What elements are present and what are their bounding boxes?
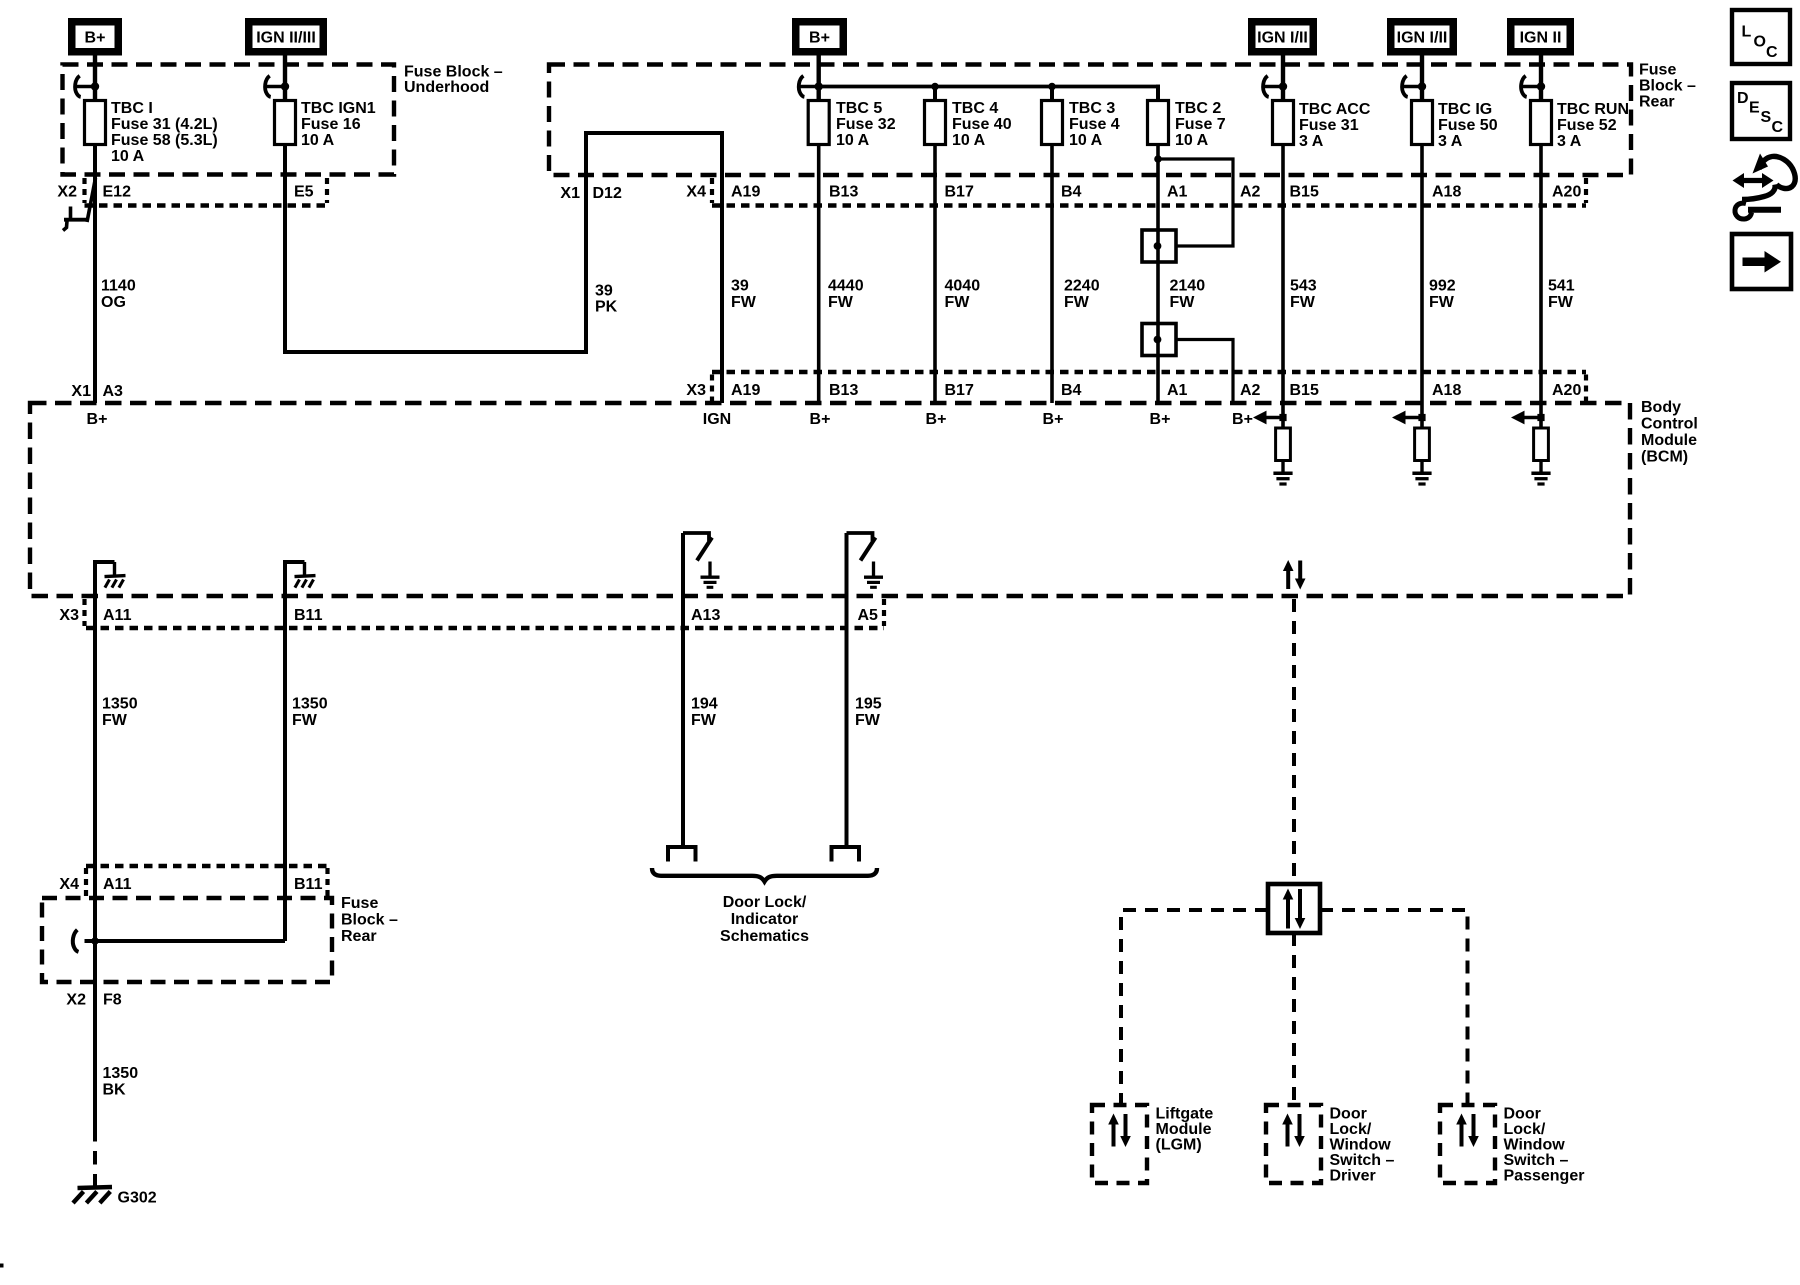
svg-text:A19: A19: [731, 382, 760, 399]
svg-text:TBC 4: TBC 4: [952, 100, 998, 117]
svg-text:FW: FW: [828, 294, 854, 311]
svg-text:Fuse 40: Fuse 40: [952, 116, 1012, 133]
door lock/window switch driver box: [1266, 1105, 1321, 1183]
svg-text:Module: Module: [1156, 1121, 1212, 1138]
svg-text:Fuse 4: Fuse 4: [1069, 116, 1120, 133]
svg-text:Fuse 32: Fuse 32: [836, 116, 896, 133]
svg-text:PK: PK: [595, 299, 618, 316]
svg-text:10 A: 10 A: [301, 132, 335, 149]
svg-text:TBC IGN1: TBC IGN1: [301, 100, 376, 117]
power label B+ underhood: [68, 18, 122, 56]
fuse TBC 3 label: [1069, 100, 1120, 149]
connector A2 label (top): [1240, 184, 1261, 201]
svg-text:Body: Body: [1641, 399, 1681, 416]
svg-text:2140: 2140: [1170, 278, 1206, 295]
svg-text:X1: X1: [71, 383, 91, 400]
BCM input resistor to ground (A18): [1392, 411, 1432, 484]
wire 1350 BK dashed to ground: [93, 1128, 97, 1186]
wire label 1350 BK: [103, 1065, 139, 1099]
connector sep X4/A11 (lower): [84, 868, 88, 896]
svg-text:B+: B+: [1232, 411, 1253, 428]
BCM internal ground (B11): [285, 562, 316, 596]
svg-text:FW: FW: [691, 712, 717, 729]
svg-text:A1: A1: [1167, 184, 1188, 201]
svg-text:A11: A11: [103, 607, 132, 624]
svg-text:1140: 1140: [101, 278, 136, 295]
connector B17 label (top): [945, 184, 974, 201]
BCM pin label B+ (B13): [810, 411, 831, 428]
wire 992 FW: [1420, 145, 1424, 429]
branch wire to splice S1: [1158, 159, 1233, 246]
connector A1 label (top): [1167, 184, 1188, 201]
connector sep X4/A19: [710, 178, 714, 203]
bus clip at B+ rear: [799, 76, 823, 97]
svg-text:B+: B+: [1043, 411, 1064, 428]
svg-text:(LGM): (LGM): [1156, 1137, 1202, 1154]
svg-text:1350: 1350: [102, 696, 138, 713]
connector B13 label (top): [829, 184, 858, 201]
svg-text:IGN: IGN: [703, 411, 731, 428]
svg-text:X1: X1: [560, 185, 580, 202]
connector sep right of A20: [1584, 178, 1588, 203]
wire join inside rear block: [85, 939, 286, 943]
wire 4040 FW: [933, 145, 937, 404]
terminal fork (194): [666, 845, 698, 862]
dashed data wire to passenger switch: [1320, 910, 1468, 1105]
svg-text:Rear: Rear: [341, 928, 377, 945]
BCM serial data up/down arrows: [1283, 560, 1306, 590]
splice box S1: [1142, 230, 1176, 262]
svg-text:Fuse Block –: Fuse Block –: [404, 64, 503, 81]
svg-text:Passenger: Passenger: [1504, 1168, 1585, 1185]
BCM internal ground (A11): [95, 562, 126, 596]
connector sep right of A5: [882, 599, 886, 626]
splice box S2: [1142, 324, 1176, 356]
svg-text:FW: FW: [1064, 294, 1090, 311]
svg-text:A1: A1: [1167, 382, 1188, 399]
svg-text:X2: X2: [66, 992, 86, 1009]
in-line connector jog at E12: [63, 178, 96, 231]
svg-text:1350: 1350: [292, 696, 328, 713]
BCM pin label B+ (A1): [1150, 411, 1171, 428]
svg-text:FW: FW: [102, 712, 128, 729]
fuse TBC IG: [1412, 101, 1433, 145]
dashed data wire to liftgate module: [1121, 910, 1268, 1105]
svg-text:OG: OG: [101, 294, 126, 311]
svg-text:Indicator: Indicator: [731, 911, 799, 928]
svg-text:TBC 2: TBC 2: [1175, 100, 1221, 117]
fuse block rear box (bottom): [42, 898, 332, 982]
svg-text:TBC I: TBC I: [111, 100, 153, 117]
fuse TBC 2 label: [1175, 100, 1226, 149]
svg-text:G302: G302: [118, 1190, 157, 1207]
svg-text:A11: A11: [103, 876, 132, 893]
wire 195 FW (A5): [845, 533, 849, 845]
svg-text:10 A: 10 A: [836, 132, 870, 149]
svg-text:B+: B+: [926, 411, 947, 428]
bus clip at TBC IG: [1402, 76, 1426, 97]
connector X2 | F8 labels: [66, 992, 121, 1009]
connector sep X3/A11: [82, 599, 86, 626]
wire IGN to TBC ACC fuse: [1281, 56, 1285, 101]
connector A5 label: [858, 607, 879, 624]
svg-text:B+: B+: [85, 30, 106, 47]
svg-text:Fuse: Fuse: [1639, 62, 1676, 79]
svg-text:Door: Door: [1330, 1106, 1367, 1123]
svg-text:Control: Control: [1641, 416, 1698, 433]
svg-text:4440: 4440: [828, 278, 864, 295]
svg-text:4040: 4040: [945, 278, 981, 295]
fuse TBC 5 label: [836, 100, 896, 149]
svg-text:Switch –: Switch –: [1330, 1152, 1395, 1169]
connector A13 label: [691, 607, 720, 624]
fuse TBC IG label: [1438, 101, 1498, 150]
BCM top connector band top dotted line: [712, 370, 1586, 374]
fuse TBC I label: [111, 100, 218, 165]
svg-text:A18: A18: [1432, 184, 1461, 201]
svg-text:Fuse 52: Fuse 52: [1557, 117, 1617, 134]
fuse TBC 5: [808, 101, 829, 145]
svg-text:A3: A3: [103, 383, 124, 400]
svg-text:X2: X2: [57, 184, 77, 201]
body control module (BCM) box: [30, 403, 1630, 596]
svg-text:3 A: 3 A: [1299, 133, 1324, 150]
svg-text:10 A: 10 A: [1175, 132, 1209, 149]
svg-text:Lock/: Lock/: [1504, 1121, 1546, 1138]
svg-text:IGN II: IGN II: [1520, 30, 1562, 47]
svg-text:X4: X4: [59, 876, 79, 893]
svg-text:10 A: 10 A: [1069, 132, 1103, 149]
svg-text:Fuse 50: Fuse 50: [1438, 117, 1498, 134]
connector A1 label (BCM): [1167, 382, 1188, 399]
wire 1350 BK solid: [93, 941, 97, 1128]
svg-text:Liftgate: Liftgate: [1156, 1106, 1214, 1123]
svg-text:541: 541: [1548, 278, 1575, 295]
svg-text:(BCM): (BCM): [1641, 449, 1688, 466]
label door lock/indicator schematics: [720, 894, 809, 945]
svg-text:B17: B17: [945, 382, 974, 399]
svg-text:A20: A20: [1552, 184, 1581, 201]
svg-text:TBC 3: TBC 3: [1069, 100, 1115, 117]
BCM internal door lock switch (A13): [683, 533, 720, 587]
svg-text:TBC RUN: TBC RUN: [1557, 101, 1629, 118]
svg-text:IGN I/II: IGN I/II: [1397, 30, 1448, 47]
wire 543 FW: [1281, 145, 1285, 429]
power label IGN I/II (ACC): [1248, 18, 1317, 56]
svg-text:Fuse 7: Fuse 7: [1175, 116, 1226, 133]
svg-text:10 A: 10 A: [952, 132, 986, 149]
svg-text:D12: D12: [593, 185, 622, 202]
fuse TBC IGN1: [275, 101, 296, 145]
connector sep X2/E12: [82, 178, 86, 203]
svg-text:Driver: Driver: [1330, 1168, 1376, 1185]
svg-text:B17: B17: [945, 184, 974, 201]
connector B15 label (BCM): [1290, 382, 1319, 399]
svg-text:BK: BK: [103, 1082, 127, 1099]
svg-text:B4: B4: [1061, 382, 1082, 399]
svg-text:B13: B13: [829, 382, 858, 399]
wire 2240 FW: [1050, 145, 1054, 404]
connector B13 label (BCM): [829, 382, 858, 399]
connector A18 label (BCM): [1432, 382, 1461, 399]
fuse TBC ACC label: [1299, 101, 1371, 150]
svg-text:FW: FW: [1290, 294, 1316, 311]
icon wiring navigation scribble: [1733, 154, 1796, 220]
fuse TBC 2: [1148, 101, 1169, 145]
liftgate module (LGM) box: [1092, 1105, 1147, 1183]
wire label 4040 FW: [945, 278, 981, 312]
svg-text:A20: A20: [1552, 382, 1581, 399]
terminal fork (195): [830, 845, 862, 862]
power label IGN II/III: [245, 18, 327, 56]
svg-text:Fuse 16: Fuse 16: [301, 116, 361, 133]
connector sep right of E5: [325, 178, 329, 203]
svg-text:FW: FW: [1548, 294, 1574, 311]
fuse TBC IGN1 label: [301, 100, 376, 149]
svg-text:L: L: [1742, 24, 1752, 41]
svg-text:D: D: [1737, 90, 1749, 107]
power label IGN I/II (IG): [1387, 18, 1457, 56]
svg-text:Lock/: Lock/: [1330, 1121, 1372, 1138]
wire bus to TBC 3 fuse: [1050, 87, 1054, 101]
door lock/window switch driver label: [1330, 1106, 1395, 1185]
connector sep right of B11 (lower): [325, 868, 329, 896]
dashed data wire to driver switch: [1292, 933, 1296, 1105]
svg-text:E5: E5: [294, 184, 314, 201]
connector B17 label (BCM): [945, 382, 974, 399]
wire B+ to TBC I fuse: [93, 56, 97, 101]
wire bus to TBC 4 fuse: [933, 87, 937, 101]
junction dot at ground join: [91, 937, 99, 945]
bus clip at TBC RUN: [1521, 76, 1545, 97]
wire 1350 FW (B11): [283, 562, 287, 941]
fuse TBC RUN label: [1557, 101, 1629, 150]
data junction box with up/down arrows: [1268, 884, 1320, 933]
connector X4 | A19 labels: [686, 184, 760, 201]
svg-text:Schematics: Schematics: [720, 928, 809, 945]
svg-text:B11: B11: [294, 876, 323, 893]
wire label 195 FW: [855, 696, 882, 730]
svg-text:Module: Module: [1641, 432, 1697, 449]
svg-text:IGN II/III: IGN II/III: [256, 30, 316, 47]
svg-text:Door: Door: [1504, 1106, 1541, 1123]
wire label 194 FW: [691, 696, 718, 730]
svg-text:FW: FW: [855, 712, 881, 729]
svg-text:B13: B13: [829, 184, 858, 201]
svg-text:3 A: 3 A: [1557, 133, 1582, 150]
BCM input resistor to ground (B15): [1253, 411, 1293, 484]
svg-text:Switch –: Switch –: [1504, 1152, 1569, 1169]
svg-text:FW: FW: [731, 294, 757, 311]
power label IGN II (RUN): [1507, 18, 1574, 56]
svg-text:S: S: [1761, 109, 1772, 126]
svg-text:B4: B4: [1061, 184, 1082, 201]
svg-text:Window: Window: [1504, 1137, 1566, 1154]
svg-text:B11: B11: [294, 607, 323, 624]
fuse block rear label: [1639, 62, 1696, 111]
svg-text:B+: B+: [810, 411, 831, 428]
dashed data wire BCM to junction box: [1292, 599, 1296, 884]
connector X3 | A11 labels: [59, 607, 131, 624]
svg-text:TBC 5: TBC 5: [836, 100, 882, 117]
svg-text:B15: B15: [1290, 184, 1319, 201]
svg-text:Underhood: Underhood: [404, 79, 489, 96]
wire B+ to bus: [817, 56, 821, 101]
connector B4 label (top): [1061, 184, 1082, 201]
wire label 39 PK: [595, 283, 618, 316]
svg-text:C: C: [1772, 119, 1784, 136]
svg-text:FW: FW: [945, 294, 971, 311]
connector A2 label (BCM): [1240, 382, 1261, 399]
wire 194 FW (A13): [681, 533, 685, 845]
BCM internal door lock switch (A5): [847, 533, 884, 587]
svg-text:B+: B+: [87, 411, 108, 428]
wire 1140 OG: [93, 145, 97, 404]
fuse block rear box (top): [549, 65, 1631, 176]
connector A20 label (top): [1552, 184, 1581, 201]
fuse TBC 3: [1042, 101, 1063, 145]
svg-text:Fuse 31: Fuse 31: [1299, 117, 1359, 134]
svg-text:A19: A19: [731, 184, 760, 201]
connector X4 | A11 labels (lower): [59, 876, 131, 893]
svg-text:TBC ACC: TBC ACC: [1299, 101, 1371, 118]
rear connector band bottom dotted line: [712, 203, 1586, 207]
junction dot TBC 4 tap: [931, 83, 939, 91]
rear lower connector band top dotted line: [86, 864, 328, 868]
wire label 541 FW: [1548, 278, 1575, 312]
wire 4440 FW: [817, 145, 821, 404]
wire label 543 FW: [1290, 278, 1317, 312]
svg-text:FW: FW: [1429, 294, 1455, 311]
svg-text:FW: FW: [1170, 294, 1196, 311]
connector B11 label (lower): [294, 876, 323, 893]
junction dot TBC 3 tap: [1048, 83, 1056, 91]
svg-text:195: 195: [855, 696, 882, 713]
svg-text:A2: A2: [1240, 184, 1261, 201]
wire label 1350 FW (A11): [102, 696, 138, 730]
BCM pin label B+ (A2): [1232, 411, 1253, 428]
bus clip at TBC IGN1: [265, 76, 289, 97]
wire IGN to TBC IG fuse: [1420, 56, 1424, 101]
fuse block underhood box: [63, 65, 395, 175]
svg-text:C: C: [1766, 44, 1778, 61]
B+ distribution bus: [819, 85, 1160, 89]
icon LOC box: [1732, 10, 1790, 64]
svg-text:FW: FW: [292, 712, 318, 729]
BCM pin label B+ (B17): [926, 411, 947, 428]
svg-text:A2: A2: [1240, 382, 1261, 399]
svg-text:Window: Window: [1330, 1137, 1392, 1154]
clip at ground join: [73, 930, 79, 952]
svg-text:B15: B15: [1290, 382, 1319, 399]
svg-text:39: 39: [731, 278, 749, 295]
fuse block underhood label: [404, 64, 503, 97]
wire 541 FW: [1539, 145, 1543, 429]
fuse TBC ACC: [1273, 101, 1294, 145]
svg-text:E: E: [1749, 100, 1760, 117]
svg-text:194: 194: [691, 696, 718, 713]
svg-text:2240: 2240: [1064, 278, 1100, 295]
icon forward arrow box: [1732, 234, 1791, 289]
svg-text:543: 543: [1290, 278, 1317, 295]
fuse TBC I: [85, 101, 106, 145]
fuse TBC 4 label: [952, 100, 1012, 149]
svg-text:10 A: 10 A: [111, 148, 145, 165]
BCM bottom connector band bottom dotted line: [86, 626, 884, 630]
svg-text:A5: A5: [858, 607, 879, 624]
wire 1350 FW (A11): [93, 562, 97, 941]
BCM pin label B+ (B4): [1043, 411, 1064, 428]
svg-text:X3: X3: [59, 607, 79, 624]
door lock/window switch passenger label: [1504, 1106, 1585, 1185]
wire 2140 FW: [1156, 145, 1160, 404]
door lock/window switch passenger box: [1440, 1105, 1495, 1183]
connector E5 label: [294, 184, 314, 201]
BCM pin label B+ (A3): [87, 411, 108, 428]
bus clip at TBC ACC: [1263, 76, 1287, 97]
branch wire S2 to A2: [1177, 340, 1233, 404]
wire label 4440 FW: [828, 278, 864, 312]
body control module label: [1641, 399, 1698, 466]
wire label 1140 OG: [101, 278, 136, 312]
svg-text:X4: X4: [686, 184, 706, 201]
wire label 39 FW: [731, 278, 757, 312]
BCM input resistor to ground (A20): [1511, 411, 1551, 484]
wire label 2140 FW: [1170, 278, 1206, 312]
wire bus corner to TBC 2 fuse: [1156, 85, 1160, 101]
connector B15 label (top): [1290, 184, 1319, 201]
connector X3 | A19 labels: [686, 382, 760, 399]
svg-text:B+: B+: [1150, 411, 1171, 428]
svg-text:Door Lock/: Door Lock/: [723, 894, 807, 911]
wire IGN to TBC RUN fuse: [1539, 56, 1543, 101]
scan artifact dot: [0, 1264, 4, 1268]
fuse block rear (bottom) label: [341, 895, 398, 945]
BCM pin label IGN (A19): [703, 411, 731, 428]
icon DESC box: [1732, 83, 1790, 139]
ground G302: [73, 1187, 112, 1203]
svg-text:O: O: [1754, 34, 1766, 51]
svg-text:Fuse 31 (4.2L): Fuse 31 (4.2L): [111, 116, 218, 133]
junction dot TBC 2 branch: [1154, 155, 1162, 163]
connector sep X3/A19: [710, 375, 714, 402]
svg-text:3 A: 3 A: [1438, 133, 1463, 150]
wire label 1350 FW (B11): [292, 696, 328, 730]
svg-text:Block –: Block –: [1639, 78, 1696, 95]
wire IGN II/III to TBC IGN1 fuse: [283, 56, 287, 101]
connector A20 label (BCM): [1552, 382, 1581, 399]
svg-text:A13: A13: [691, 607, 720, 624]
connector B4 label (BCM): [1061, 382, 1082, 399]
svg-text:E12: E12: [103, 184, 132, 201]
power label B+ rear: [792, 18, 847, 56]
connector X1 | D12 labels: [560, 185, 622, 202]
svg-text:F8: F8: [103, 992, 122, 1009]
svg-text:992: 992: [1429, 278, 1456, 295]
svg-text:Fuse: Fuse: [341, 895, 378, 912]
label G302: [118, 1190, 157, 1207]
svg-text:A18: A18: [1432, 382, 1461, 399]
fuse TBC 4: [925, 101, 946, 145]
svg-text:X3: X3: [686, 382, 706, 399]
svg-text:Rear: Rear: [1639, 94, 1675, 111]
svg-text:TBC IG: TBC IG: [1438, 101, 1492, 118]
svg-text:1350: 1350: [103, 1065, 139, 1082]
wire label 2240 FW: [1064, 278, 1100, 312]
svg-text:IGN I/II: IGN I/II: [1257, 30, 1308, 47]
connector X1 | A3 labels: [71, 383, 123, 400]
connector sep right of A20 (BCM): [1584, 375, 1588, 402]
